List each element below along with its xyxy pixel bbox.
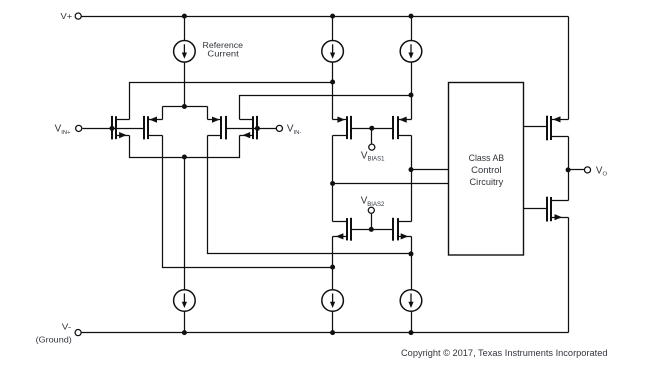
svg-text:VBIAS2: VBIAS2 bbox=[361, 196, 385, 208]
svg-text:Circuitry: Circuitry bbox=[470, 177, 504, 187]
wire: output node to VO terminal bbox=[569, 169, 585, 171]
wire: M1 drain to I2 column bbox=[130, 83, 333, 120]
wire: V- rail bbox=[82, 332, 569, 334]
wire: M3 source up-lead bbox=[207, 107, 209, 120]
svg-text:Copyright © 2017, Texas Instru: Copyright © 2017, Texas Instruments Inco… bbox=[401, 348, 608, 359]
V- terminal bbox=[75, 330, 81, 336]
wire: reference current to input PMOS tail node bbox=[184, 63, 186, 107]
wire: M2 source up-lead bbox=[162, 107, 164, 120]
node: M6-M8 junction to control bbox=[409, 167, 414, 172]
current source I6 bbox=[400, 290, 422, 312]
node: V- / I6 bbox=[409, 330, 414, 335]
VO terminal bbox=[584, 167, 590, 173]
cascode NMOS M8 bbox=[392, 218, 394, 241]
cascode PMOS M5 bbox=[350, 116, 352, 139]
V+ terminal bbox=[75, 13, 81, 19]
wire: V+ to current source I2 bbox=[332, 17, 334, 41]
node: VBIAS2 gate junction bbox=[369, 227, 374, 232]
svg-text:(Ground): (Ground) bbox=[36, 335, 72, 345]
VIN+ terminal bbox=[76, 125, 82, 131]
wire: PMOS pair source rail bbox=[163, 106, 208, 108]
wire: I2 to M5 source bbox=[332, 63, 334, 120]
wire: NMOS pair tail rail bbox=[130, 136, 240, 158]
wire: output PMOS drain to output node bbox=[568, 137, 570, 170]
wire: M3/M4 gates to VIN- bbox=[226, 128, 277, 130]
input PMOS M3 bbox=[225, 116, 227, 139]
node: V+ / current source I2 bbox=[330, 14, 335, 19]
wire: M2 drain down bbox=[163, 136, 333, 268]
wire: I3 to M6 source bbox=[411, 63, 413, 120]
wire: M4 drain to I3 column bbox=[240, 96, 412, 120]
svg-text:V+: V+ bbox=[61, 11, 73, 21]
wire: VIN+ to M1/M2 gates bbox=[83, 128, 144, 130]
node: output bbox=[566, 167, 571, 172]
current source I2 bbox=[322, 41, 344, 63]
svg-text:Current: Current bbox=[207, 49, 239, 59]
node: M5-M7 junction to control bbox=[330, 181, 335, 186]
wire: M5 drain / M7 drain column bbox=[332, 136, 334, 222]
wire: VBIAS2 stub bbox=[371, 214, 373, 230]
wire: VBIAS1 stub bbox=[371, 129, 373, 144]
wire: VBIAS1 gate rail bbox=[351, 128, 393, 130]
cascode NMOS M7 bbox=[350, 218, 352, 241]
wire: V+ to reference current source bbox=[184, 17, 186, 41]
current source I3 bbox=[400, 41, 422, 63]
output NMOS M10 bbox=[546, 197, 548, 222]
svg-text:VO: VO bbox=[596, 165, 608, 177]
svg-text:VIN-: VIN- bbox=[287, 124, 301, 136]
wire: M6 drain / M8 drain column bbox=[411, 136, 413, 222]
node: M3 drain / M8 source bbox=[409, 251, 414, 256]
wire: NMOS tail to bottom current source I4 bbox=[184, 158, 186, 290]
wire: V+ rail right drop bbox=[568, 17, 570, 120]
wire: M7 source down to I5 bbox=[332, 237, 334, 290]
node: M2 drain / M7 source bbox=[330, 265, 335, 270]
current source I1 (reference current) bbox=[174, 41, 196, 63]
wire: V+ rail bbox=[82, 16, 569, 18]
node: VIN+ gate junction bbox=[110, 126, 115, 131]
svg-text:Class AB: Class AB bbox=[469, 153, 505, 163]
current source I5 bbox=[322, 290, 344, 312]
node: VBIAS1 gate junction bbox=[369, 126, 374, 131]
wire: I4 to V- rail bbox=[184, 312, 186, 333]
node: NMOS pair tail bbox=[182, 155, 187, 160]
VBIAS2 terminal bbox=[368, 207, 374, 213]
node: V+ / current source I3 bbox=[409, 14, 414, 19]
input NMOS M4 bbox=[256, 116, 258, 139]
svg-text:VIN+: VIN+ bbox=[55, 124, 71, 136]
class AB control circuitry block bbox=[449, 83, 524, 256]
current source I4 (input tail) bbox=[174, 290, 196, 312]
node: V+ / reference current source bbox=[182, 14, 187, 19]
wire: I5 to V- rail bbox=[332, 312, 334, 333]
wire: M8 source down to I6 bbox=[411, 237, 413, 290]
wire: output NMOS source to V- rail bbox=[568, 218, 570, 333]
wire: M3 drain down bbox=[208, 136, 412, 254]
output PMOS M9 bbox=[546, 116, 548, 141]
input NMOS M1 bbox=[111, 116, 113, 139]
VBIAS1 terminal bbox=[369, 144, 375, 150]
input PMOS M2 bbox=[143, 116, 145, 139]
node: V- / I5 bbox=[330, 330, 335, 335]
node: V- / I4 bbox=[182, 330, 187, 335]
node: M1 drain / I2 bbox=[330, 80, 335, 85]
cascode PMOS M6 bbox=[392, 116, 394, 139]
wire: output NMOS drain to output node bbox=[568, 170, 570, 201]
wire: control to output NMOS gate bbox=[524, 208, 547, 210]
svg-text:VBIAS1: VBIAS1 bbox=[361, 150, 385, 162]
wire: VBIAS2 gate rail bbox=[351, 229, 393, 231]
wire: to class AB control input B bbox=[333, 183, 449, 185]
wire: V+ to current source I3 bbox=[411, 17, 413, 41]
wire: control to output PMOS gate bbox=[524, 126, 547, 128]
wire: to class AB control input A bbox=[412, 169, 449, 171]
node: M4 drain / I3 bbox=[409, 93, 414, 98]
node: PMOS pair tail bbox=[182, 104, 187, 109]
wire: I6 to V- rail bbox=[411, 312, 413, 333]
VIN- terminal bbox=[276, 125, 282, 131]
node: VIN- gate junction bbox=[255, 126, 260, 131]
svg-text:Control: Control bbox=[471, 165, 502, 175]
svg-text:V-: V- bbox=[62, 321, 71, 331]
